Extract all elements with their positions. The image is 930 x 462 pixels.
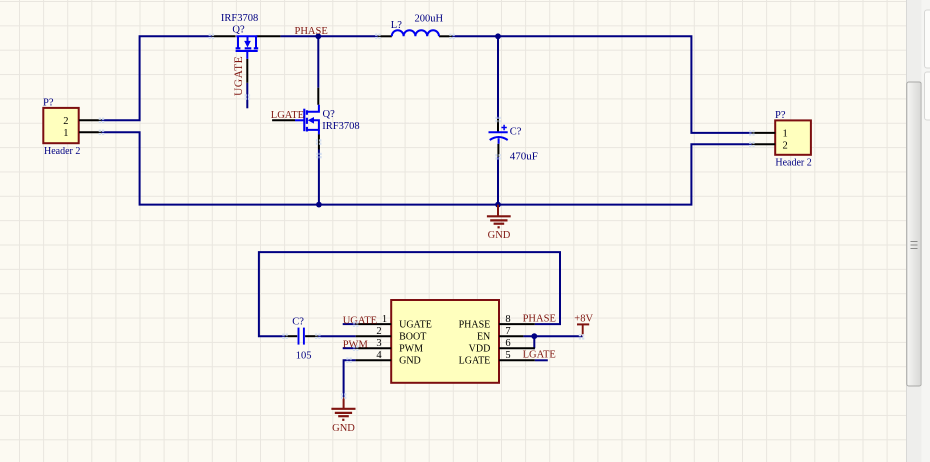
- svg-text:1: 1: [382, 314, 387, 325]
- svg-text:EN: EN: [477, 332, 490, 343]
- svg-text:Q?: Q?: [323, 109, 336, 120]
- svg-text:+8V: +8V: [574, 313, 593, 324]
- pin 2 of U1: [356, 335, 392, 337]
- wire: PHASE node down to Q2 drain: [317, 36, 319, 87]
- wire: UGATE net stub from Q1 gate: [246, 83, 248, 109]
- svg-text:PWM: PWM: [399, 344, 423, 355]
- right panel strip: [922, 0, 930, 462]
- svg-text:3: 3: [376, 338, 381, 349]
- pin 7 of U1: [499, 335, 523, 337]
- wire: UGATE stub pin1: [343, 323, 356, 325]
- svg-text:PHASE: PHASE: [523, 314, 556, 325]
- svg-text:2: 2: [783, 141, 788, 152]
- header P2: [775, 110, 812, 169]
- svg-text:L?: L?: [391, 20, 402, 31]
- junction EN/VDD node: [531, 333, 537, 339]
- svg-text:P?: P?: [43, 98, 54, 109]
- junction PHASE node: [315, 33, 321, 39]
- wire: PWM stub pin3: [343, 347, 356, 349]
- transistor Q2 IRF3708 (low-side MOSFET): [272, 88, 360, 150]
- svg-text:PWM: PWM: [343, 339, 369, 350]
- svg-text:P?: P?: [775, 110, 786, 121]
- pin 8 of U1: [499, 323, 535, 325]
- ground GND1: [487, 205, 511, 241]
- wire: bootstrap loop C2 to top to PHASE pin8: [259, 252, 560, 336]
- capacitor C1 470uF: [489, 119, 538, 162]
- svg-text:1: 1: [63, 128, 68, 139]
- svg-text:1: 1: [783, 129, 788, 140]
- svg-text:8: 8: [505, 314, 510, 325]
- svg-text:PHASE: PHASE: [459, 320, 491, 331]
- pin 3 of U1: [356, 347, 392, 349]
- wire: C1 bottom to bottom rail: [497, 157, 499, 205]
- svg-text:6: 6: [505, 338, 510, 349]
- pin 2 of P1: [79, 119, 101, 121]
- power +8V: [574, 313, 593, 336]
- junction Q2 source at bottom rail: [316, 202, 322, 208]
- wire: junction down to VDD pin6: [533, 336, 536, 348]
- pin 2 of P2: [752, 143, 775, 145]
- wire: Q2 source to bottom rail: [318, 150, 320, 205]
- wire: bottom rail from P1 pin1 to P2 pin2: [101, 132, 751, 204]
- svg-text:BOOT: BOOT: [399, 332, 426, 343]
- svg-text:GND: GND: [399, 356, 421, 367]
- wire: LGATE stub pin5: [535, 359, 548, 361]
- ground GND2: [331, 397, 355, 433]
- svg-text:UGATE: UGATE: [343, 315, 377, 326]
- svg-text:IRF3708: IRF3708: [221, 13, 258, 24]
- pin 1 of P1: [79, 131, 101, 133]
- capacitor C2 105: [285, 317, 318, 362]
- header P1: [43, 98, 80, 158]
- svg-text:IRF3708: IRF3708: [322, 121, 359, 132]
- svg-text:Header 2: Header 2: [775, 158, 811, 169]
- svg-text:LGATE: LGATE: [459, 356, 491, 367]
- svg-text:VDD: VDD: [469, 344, 491, 355]
- wire: inductor to top-right corner down to header P2 pin1: [452, 36, 752, 133]
- junction output node top: [495, 33, 501, 39]
- svg-text:470uF: 470uF: [510, 150, 538, 162]
- transistor Q1 IRF3708 (high-side MOSFET): [212, 13, 281, 83]
- svg-text:2: 2: [376, 326, 381, 337]
- junction C1 at bottom rail: [495, 202, 501, 208]
- svg-text:UGATE: UGATE: [233, 56, 245, 96]
- svg-text:LGATE: LGATE: [523, 350, 556, 361]
- svg-text:C?: C?: [292, 317, 304, 328]
- svg-text:Q?: Q?: [232, 24, 245, 35]
- svg-text:LGATE: LGATE: [271, 110, 304, 121]
- svg-text:Header 2: Header 2: [44, 146, 80, 157]
- svg-text:GND: GND: [332, 423, 355, 434]
- svg-text:5: 5: [505, 350, 510, 361]
- IC U1: [391, 300, 499, 383]
- pin 1 of P2: [752, 132, 775, 134]
- svg-text:PHASE: PHASE: [295, 26, 328, 37]
- svg-text:C?: C?: [510, 127, 522, 138]
- pin 1 of U1: [356, 323, 392, 325]
- wire: EN pin7 to +8V: [523, 335, 582, 337]
- pin 4 of U1: [356, 359, 392, 361]
- scrollbar thumb: [907, 82, 921, 386]
- inductor L1: [378, 14, 452, 37]
- wire: output node down to capacitor C1: [497, 36, 499, 119]
- scrollbar track: [906, 0, 922, 462]
- wire: top rail Q1 source to PHASE node to inductor: [280, 35, 377, 37]
- svg-text:4: 4: [376, 350, 382, 361]
- svg-text:GND: GND: [488, 230, 511, 241]
- svg-text:2: 2: [63, 116, 68, 127]
- pin 5 of U1: [499, 359, 535, 361]
- svg-text:7: 7: [505, 326, 510, 337]
- wire: GND pin4 to ground: [344, 360, 356, 397]
- svg-text:UGATE: UGATE: [399, 320, 432, 331]
- wire end markers: [99, 34, 755, 399]
- wire: C2 right pin to U1 BOOT pin: [318, 335, 356, 337]
- svg-text:200uH: 200uH: [415, 14, 444, 25]
- pin 6 of U1: [499, 347, 535, 349]
- wire: header P1 pin2 to top rail to Q1 drain: [101, 36, 211, 120]
- svg-text:105: 105: [296, 351, 312, 362]
